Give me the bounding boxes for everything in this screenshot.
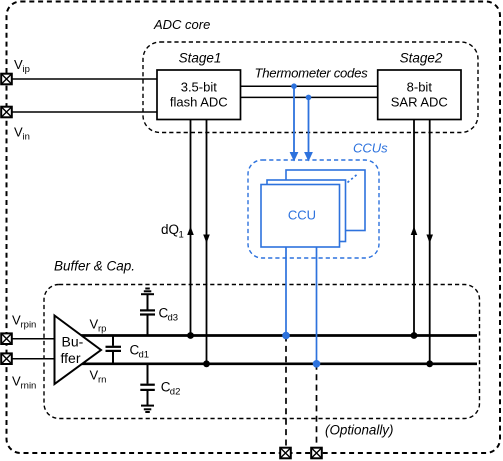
- svg-text:(Optionally): (Optionally): [325, 423, 393, 438]
- svg-text:Thermometer codes: Thermometer codes: [255, 66, 369, 81]
- svg-text:CCU: CCU: [288, 208, 316, 223]
- svg-text:1: 1: [179, 230, 184, 241]
- svg-text:ADC core: ADC core: [153, 17, 210, 32]
- svg-text:Buffer & Cap.: Buffer & Cap.: [54, 259, 135, 274]
- svg-text:d3: d3: [168, 313, 179, 324]
- svg-text:flash ADC: flash ADC: [170, 94, 228, 109]
- svg-text:SAR ADC: SAR ADC: [391, 94, 448, 109]
- svg-text:rn: rn: [98, 375, 106, 386]
- svg-text:rnin: rnin: [21, 381, 37, 392]
- svg-text:rp: rp: [98, 324, 106, 335]
- svg-text:Stage2: Stage2: [400, 51, 443, 66]
- svg-text:rpin: rpin: [21, 320, 37, 331]
- svg-text:d1: d1: [139, 350, 150, 361]
- svg-text:ip: ip: [23, 64, 30, 75]
- svg-text:in: in: [23, 132, 30, 143]
- svg-text:CCUs: CCUs: [353, 140, 388, 155]
- svg-text:Stage1: Stage1: [179, 51, 222, 66]
- svg-text:8-bit: 8-bit: [407, 80, 433, 95]
- svg-text:d2: d2: [170, 386, 181, 397]
- svg-text:ffer: ffer: [61, 350, 81, 366]
- svg-text:3.5-bit: 3.5-bit: [181, 80, 218, 95]
- svg-text:dQ: dQ: [161, 222, 179, 237]
- svg-text:Bu-: Bu-: [62, 334, 84, 350]
